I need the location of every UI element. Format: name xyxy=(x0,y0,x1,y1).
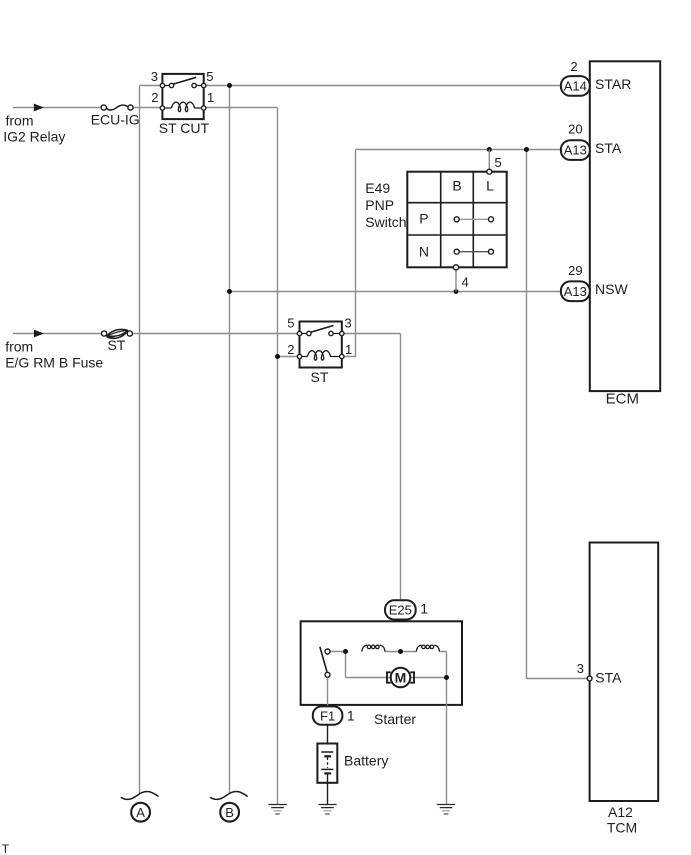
wire: ST relay T2 to ground line xyxy=(278,356,300,358)
wire: F1 to battery xyxy=(327,725,329,752)
svg-text:3: 3 xyxy=(151,69,158,84)
wire: IG2 feed horizontal xyxy=(13,107,162,109)
wire: ST CUT T1 to ground line xyxy=(204,107,278,109)
svg-text:1: 1 xyxy=(420,601,428,617)
PNP switch E49 xyxy=(407,169,506,270)
svg-text:F1: F1 xyxy=(320,708,335,723)
svg-text:Switch: Switch xyxy=(365,214,406,230)
junction dot starter center xyxy=(398,649,403,654)
wire: ST CUT T3 to A-line corner xyxy=(140,85,163,87)
starter box xyxy=(301,621,462,705)
TCM terminal pin 3 xyxy=(587,676,592,681)
motor M xyxy=(387,668,414,688)
wire: NSW line xyxy=(230,291,561,293)
svg-text:3: 3 xyxy=(345,316,352,331)
connector A13 pin 29 xyxy=(561,281,590,301)
wire: ST relay T3 to corner xyxy=(342,333,401,335)
wire: relay ground line vertical xyxy=(277,108,279,805)
wire: vertical to ST relay T1 xyxy=(342,150,356,357)
connector A14 pin 2 xyxy=(561,76,590,96)
wavy break B xyxy=(210,792,248,800)
circle A xyxy=(131,803,150,822)
junction dot TCM branch xyxy=(524,147,529,152)
svg-text:T: T xyxy=(2,842,10,855)
svg-text:N: N xyxy=(419,244,429,260)
relay ST CUT xyxy=(160,74,206,119)
svg-text:A: A xyxy=(136,805,145,820)
svg-text:ECM: ECM xyxy=(606,391,639,408)
ground (starter) xyxy=(437,805,455,815)
svg-text:A13: A13 xyxy=(564,143,587,158)
connector A13 pin 20 xyxy=(561,140,590,160)
svg-text:NSW: NSW xyxy=(595,281,628,297)
wire: B-line vertical xyxy=(229,86,231,794)
circle B xyxy=(220,803,239,822)
svg-text:2: 2 xyxy=(570,59,577,74)
svg-text:TCM: TCM xyxy=(607,819,637,835)
svg-text:5: 5 xyxy=(287,316,294,331)
wire: PNP pin5 stub xyxy=(488,150,490,170)
svg-text:1: 1 xyxy=(207,90,214,105)
wire: switch to F1 xyxy=(327,678,329,707)
starter coil 1 xyxy=(362,645,385,651)
svg-text:from: from xyxy=(6,112,34,128)
svg-text:ST CUT: ST CUT xyxy=(159,120,210,136)
arrow: from E/G RM B Fuse xyxy=(34,330,44,338)
svg-text:PNP: PNP xyxy=(365,197,394,213)
wire: PNP pin4 stub xyxy=(455,270,457,292)
svg-text:ST: ST xyxy=(108,337,126,353)
ECM box xyxy=(590,61,660,391)
arrow: from IG2 Relay xyxy=(34,104,44,112)
svg-text:5: 5 xyxy=(206,69,213,84)
wire: ST CUT T5 to ECM A14 xyxy=(204,85,561,87)
junction dot NSW at B-line xyxy=(227,289,232,294)
connector E25 xyxy=(385,600,416,619)
svg-text:1: 1 xyxy=(347,708,355,724)
battery xyxy=(317,744,337,783)
svg-text:Starter: Starter xyxy=(374,711,416,727)
svg-text:2: 2 xyxy=(287,342,294,357)
connector F1 xyxy=(313,706,343,724)
svg-text:STA: STA xyxy=(595,140,622,156)
wire: A-line vertical xyxy=(139,86,141,794)
svg-text:A14: A14 xyxy=(564,79,587,94)
svg-text:A13: A13 xyxy=(564,284,587,299)
svg-text:B: B xyxy=(225,805,234,820)
wire: STA line to ECM xyxy=(356,149,561,151)
junction dot starter left xyxy=(343,649,348,654)
wire: battery to ground xyxy=(327,773,329,804)
starter internal wires xyxy=(330,652,446,705)
svg-text:M: M xyxy=(395,670,407,686)
starter switch xyxy=(320,647,330,678)
svg-text:20: 20 xyxy=(568,122,582,137)
relay ST xyxy=(297,322,344,368)
svg-text:29: 29 xyxy=(568,263,582,278)
fuse ECU-IG xyxy=(101,105,133,110)
svg-text:A12: A12 xyxy=(608,804,633,820)
svg-text:Battery: Battery xyxy=(344,752,388,768)
svg-text:4: 4 xyxy=(462,275,469,290)
svg-text:B: B xyxy=(452,178,461,194)
junction dot PNP5 branch xyxy=(487,147,492,152)
junction dot B-line top xyxy=(227,83,232,88)
junction dot relay ground xyxy=(275,354,280,359)
wire: starter leg to ground xyxy=(446,705,448,804)
junction dot starter right xyxy=(444,675,449,680)
wavy break A xyxy=(121,792,159,800)
svg-text:E49: E49 xyxy=(365,180,390,196)
svg-text:from: from xyxy=(5,338,33,354)
svg-text:ECU-IG: ECU-IG xyxy=(91,112,140,128)
wire: vertical down to starter E25 xyxy=(400,334,402,652)
ground (battery) xyxy=(318,805,336,815)
wire: E/G RM B feed xyxy=(13,333,300,335)
svg-text:5: 5 xyxy=(495,155,502,170)
svg-text:E/G RM B Fuse: E/G RM B Fuse xyxy=(5,355,103,371)
junction dot NSW at PNP4 xyxy=(454,289,459,294)
svg-text:STA: STA xyxy=(595,670,622,686)
wire: vertical to TCM STA xyxy=(527,150,588,679)
svg-text:3: 3 xyxy=(577,661,584,676)
svg-text:2: 2 xyxy=(151,90,158,105)
label: E49 PNP Switch xyxy=(365,180,406,230)
svg-text:L: L xyxy=(486,178,494,194)
ground (relay coils) xyxy=(268,805,286,815)
svg-text:1: 1 xyxy=(345,342,352,357)
svg-text:STAR: STAR xyxy=(595,76,631,92)
svg-text:P: P xyxy=(419,211,428,227)
svg-text:ST: ST xyxy=(311,369,329,385)
fusible link ST xyxy=(102,329,133,338)
svg-text:IG2 Relay: IG2 Relay xyxy=(3,128,65,144)
svg-text:E25: E25 xyxy=(389,603,412,618)
TCM box xyxy=(590,543,659,802)
starter coil 2 xyxy=(416,645,439,651)
